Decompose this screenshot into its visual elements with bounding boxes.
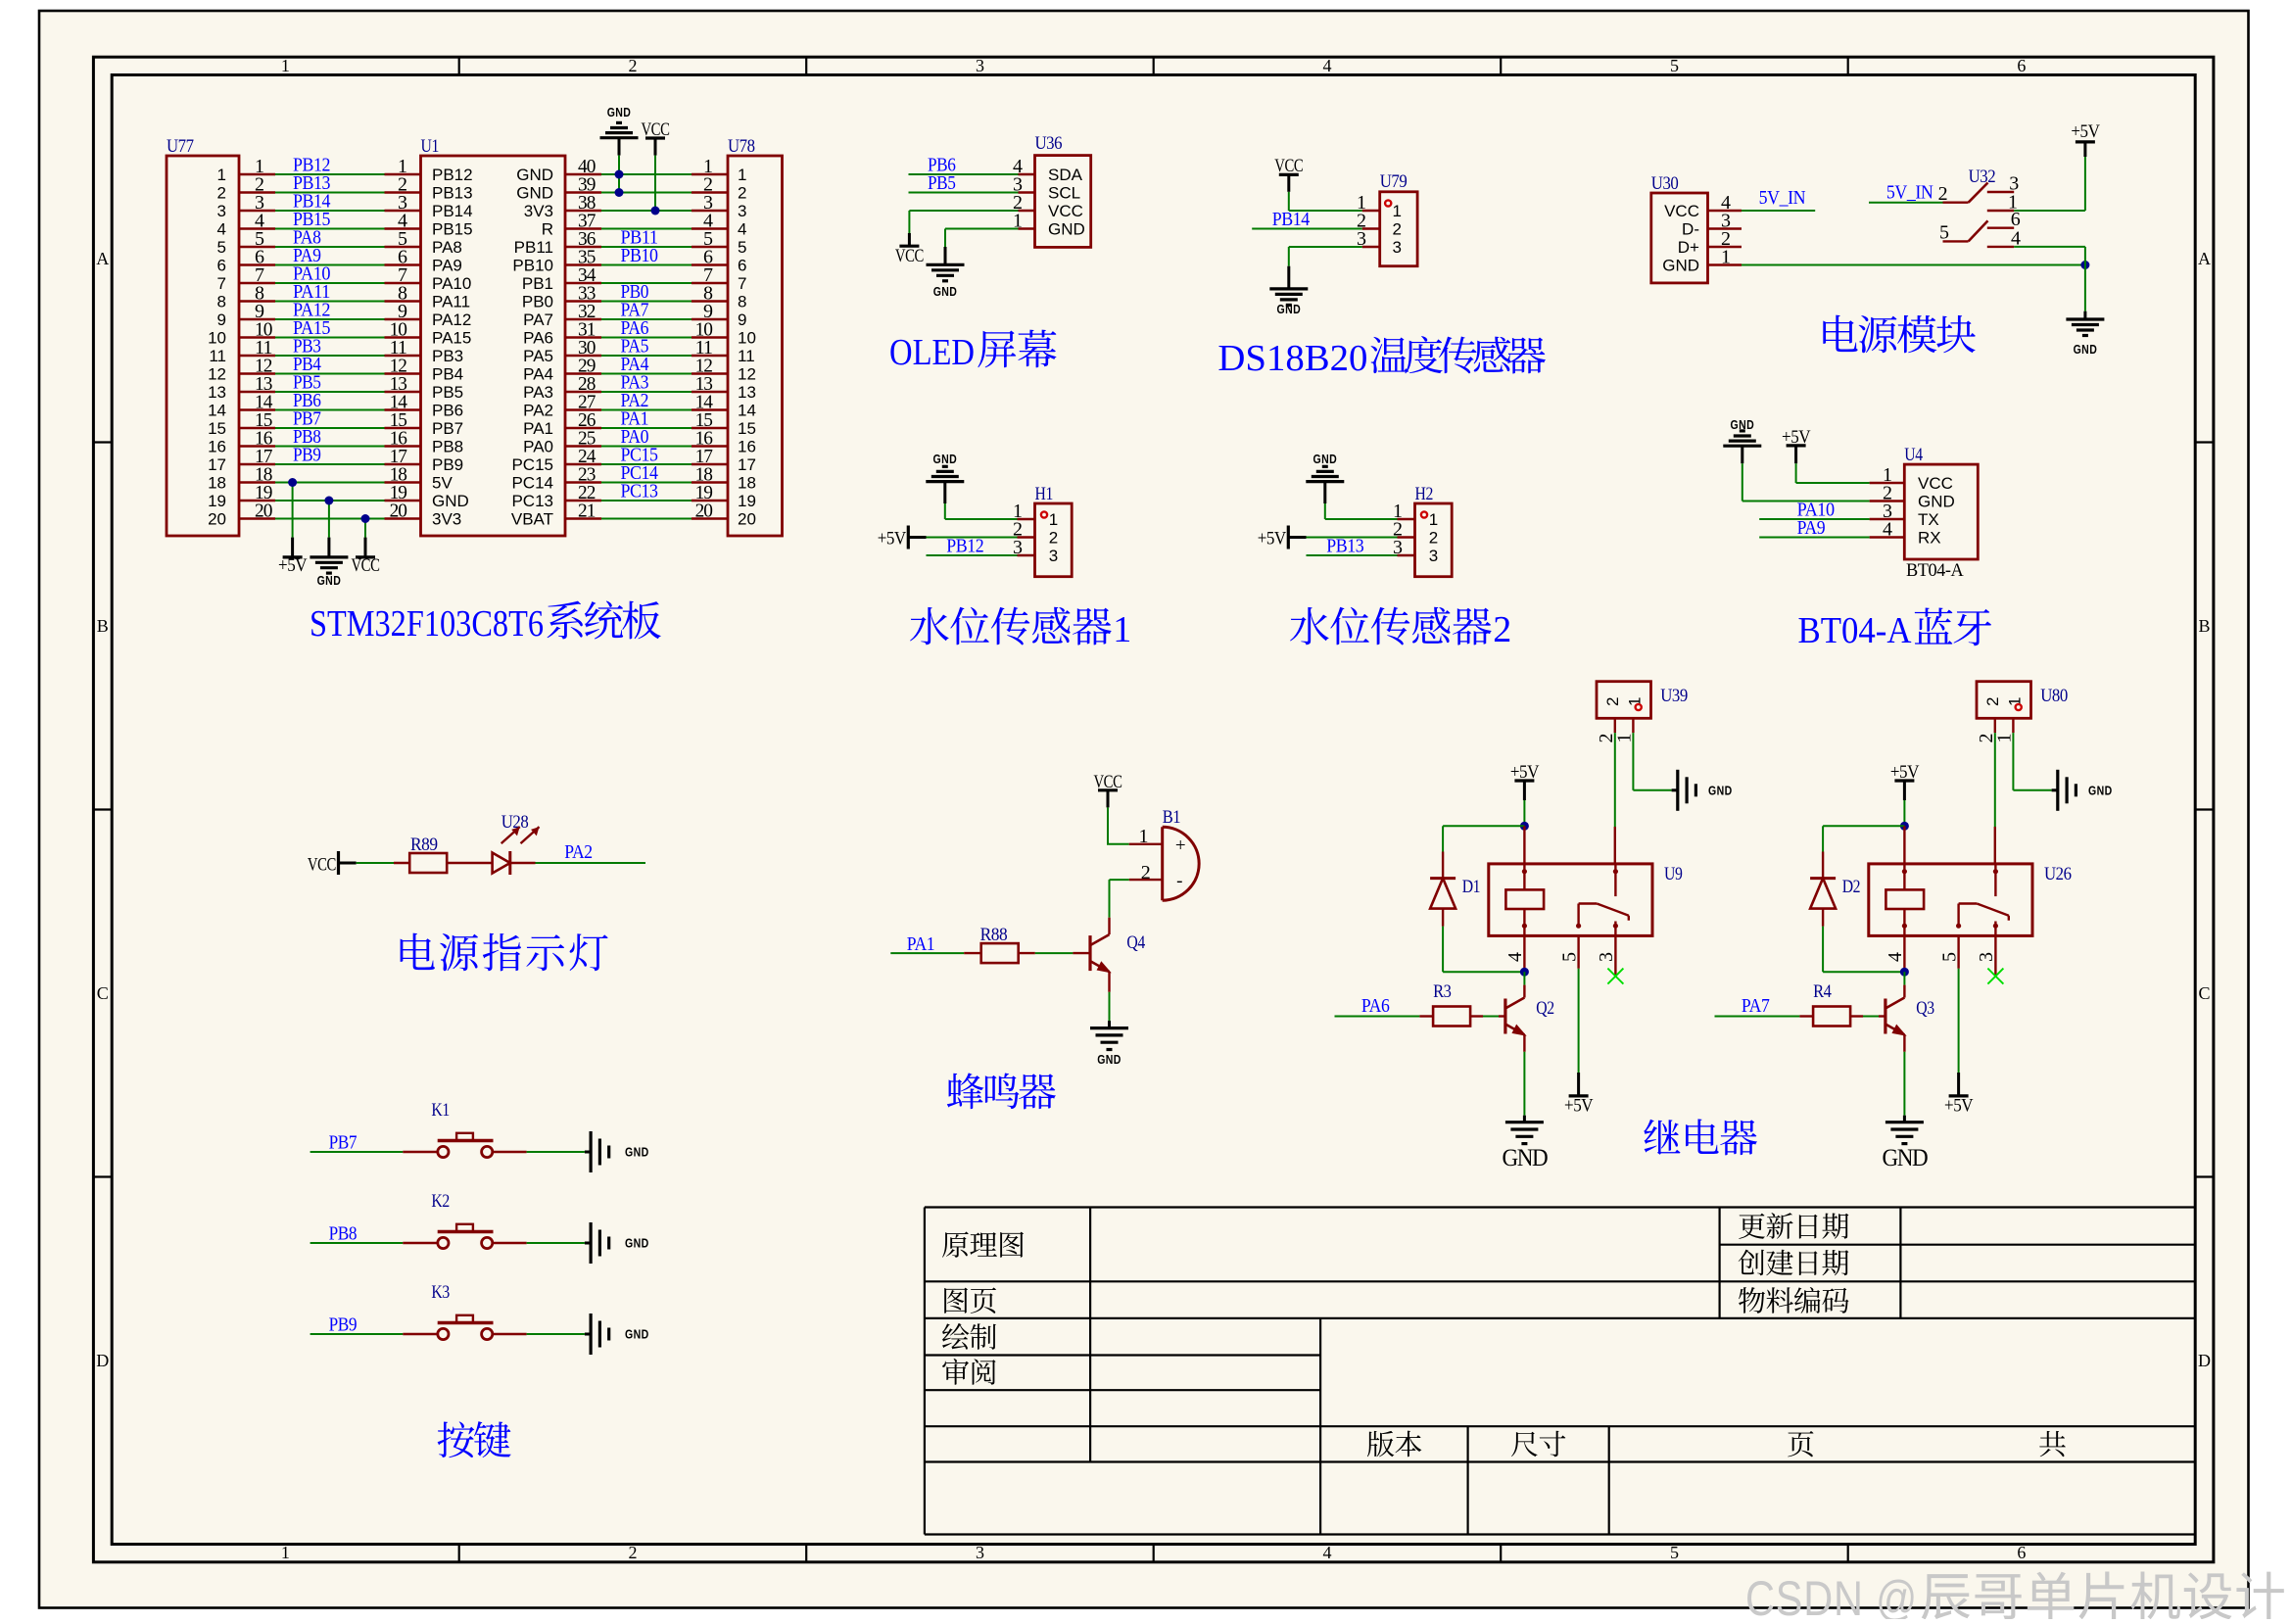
svg-text:2: 2 bbox=[1603, 697, 1622, 706]
svg-text:GND: GND bbox=[1097, 1052, 1122, 1067]
svg-text:PB9: PB9 bbox=[293, 445, 321, 466]
svg-text:PA6: PA6 bbox=[523, 329, 553, 348]
svg-text:15: 15 bbox=[738, 419, 756, 438]
svg-text:BT04-A: BT04-A bbox=[1798, 610, 1913, 651]
svg-text:PB12: PB12 bbox=[432, 166, 473, 184]
svg-text:GND: GND bbox=[1662, 257, 1699, 275]
svg-text:K2: K2 bbox=[431, 1191, 449, 1212]
svg-text:D+: D+ bbox=[1678, 238, 1699, 257]
svg-text:R88: R88 bbox=[980, 925, 1008, 945]
svg-text:D2: D2 bbox=[1842, 877, 1860, 897]
svg-text:GND: GND bbox=[625, 1236, 649, 1251]
svg-text:PB8: PB8 bbox=[432, 438, 463, 456]
svg-text:SCL: SCL bbox=[1048, 184, 1080, 203]
svg-text:19: 19 bbox=[208, 492, 226, 510]
svg-text:PC15: PC15 bbox=[511, 455, 553, 474]
svg-text:PA2: PA2 bbox=[523, 402, 553, 420]
svg-text:3: 3 bbox=[1393, 238, 1402, 257]
svg-text:GND: GND bbox=[607, 105, 632, 119]
svg-text:C: C bbox=[2198, 983, 2210, 1003]
svg-text:GND: GND bbox=[1708, 784, 1733, 798]
svg-text:PA2: PA2 bbox=[564, 841, 593, 863]
svg-text:1: 1 bbox=[281, 1543, 290, 1562]
svg-text:13: 13 bbox=[208, 383, 226, 402]
svg-text:20: 20 bbox=[255, 501, 272, 522]
svg-text:D: D bbox=[96, 1351, 109, 1370]
svg-text:VCC: VCC bbox=[351, 555, 379, 576]
svg-text:21: 21 bbox=[578, 501, 595, 522]
svg-text:3: 3 bbox=[1976, 952, 1997, 962]
svg-text:RX: RX bbox=[1918, 529, 1941, 548]
svg-text:BT04-A: BT04-A bbox=[1906, 560, 1964, 581]
svg-text:C: C bbox=[97, 983, 109, 1003]
svg-text:PA0: PA0 bbox=[523, 438, 553, 456]
svg-text:PB5: PB5 bbox=[432, 383, 463, 402]
svg-text:PB1: PB1 bbox=[522, 274, 553, 293]
svg-text:2: 2 bbox=[1493, 609, 1511, 650]
svg-text:+5V: +5V bbox=[2071, 121, 2100, 142]
svg-text:PB14: PB14 bbox=[432, 202, 473, 220]
svg-text:6: 6 bbox=[2017, 56, 2026, 75]
svg-text:+5V: +5V bbox=[1944, 1096, 1974, 1117]
svg-text:5V_IN: 5V_IN bbox=[1759, 187, 1806, 209]
svg-text:PA1: PA1 bbox=[907, 933, 935, 955]
svg-text:19: 19 bbox=[738, 492, 756, 510]
svg-text:PA9: PA9 bbox=[432, 257, 462, 275]
svg-text:PB13: PB13 bbox=[1326, 536, 1363, 557]
svg-text:2: 2 bbox=[217, 184, 226, 203]
svg-text:GND: GND bbox=[1918, 493, 1955, 511]
svg-text:3: 3 bbox=[976, 1543, 984, 1562]
svg-text:A: A bbox=[96, 249, 109, 268]
svg-text:3: 3 bbox=[738, 202, 746, 220]
svg-text:20: 20 bbox=[390, 501, 407, 522]
svg-text:VCC: VCC bbox=[895, 246, 924, 266]
svg-text:VCC: VCC bbox=[1274, 156, 1303, 176]
svg-text:PB5: PB5 bbox=[928, 172, 956, 194]
svg-text:PC13: PC13 bbox=[621, 481, 658, 502]
svg-text:D: D bbox=[2198, 1351, 2211, 1370]
svg-text:PB12: PB12 bbox=[946, 536, 983, 557]
svg-text:PA7: PA7 bbox=[1742, 995, 1770, 1017]
svg-text:A: A bbox=[2198, 249, 2211, 268]
svg-text:H1: H1 bbox=[1035, 484, 1053, 504]
svg-text:3V3: 3V3 bbox=[432, 510, 461, 529]
svg-text:PB13: PB13 bbox=[432, 184, 473, 203]
svg-text:2: 2 bbox=[1049, 529, 1058, 548]
svg-text:12: 12 bbox=[208, 365, 226, 384]
svg-text:1: 1 bbox=[217, 166, 226, 184]
svg-text:3: 3 bbox=[1596, 952, 1617, 962]
svg-text:15: 15 bbox=[208, 419, 226, 438]
svg-text:4: 4 bbox=[1885, 952, 1906, 962]
svg-text:PA6: PA6 bbox=[1361, 995, 1390, 1017]
svg-text:TX: TX bbox=[1918, 510, 1939, 529]
svg-text:PB9: PB9 bbox=[329, 1314, 358, 1336]
svg-text:PC14: PC14 bbox=[511, 474, 553, 493]
svg-text:U80: U80 bbox=[2040, 686, 2068, 706]
svg-text:U39: U39 bbox=[1660, 686, 1688, 706]
svg-text:11: 11 bbox=[209, 347, 226, 365]
svg-text:U79: U79 bbox=[1380, 171, 1408, 192]
svg-text:4: 4 bbox=[1323, 1543, 1332, 1562]
svg-text:1: 1 bbox=[1614, 735, 1636, 743]
svg-text:PA11: PA11 bbox=[432, 293, 470, 311]
svg-text:PA5: PA5 bbox=[523, 347, 553, 365]
svg-text:9: 9 bbox=[738, 310, 746, 329]
svg-text:PB15: PB15 bbox=[432, 220, 473, 239]
svg-text:VCC: VCC bbox=[1048, 202, 1083, 220]
svg-text:PB10: PB10 bbox=[621, 245, 658, 266]
svg-text:PB7: PB7 bbox=[432, 419, 463, 438]
svg-text:2: 2 bbox=[1429, 529, 1438, 548]
svg-text:9: 9 bbox=[217, 310, 226, 329]
svg-text:PB8: PB8 bbox=[329, 1223, 358, 1245]
svg-text:R3: R3 bbox=[1433, 981, 1451, 1002]
svg-text:PA1: PA1 bbox=[523, 419, 553, 438]
svg-text:U32: U32 bbox=[1969, 167, 1996, 187]
svg-text:PA15: PA15 bbox=[432, 329, 471, 348]
svg-text:U30: U30 bbox=[1651, 173, 1679, 194]
svg-text:PB11: PB11 bbox=[514, 238, 553, 257]
svg-text:6: 6 bbox=[217, 257, 226, 275]
svg-text:5: 5 bbox=[1939, 222, 1949, 244]
svg-text:PA10: PA10 bbox=[432, 274, 471, 293]
svg-text:1: 1 bbox=[281, 56, 290, 75]
svg-text:U36: U36 bbox=[1035, 133, 1063, 154]
svg-text:GND: GND bbox=[625, 1327, 649, 1342]
svg-text:PA8: PA8 bbox=[432, 238, 462, 257]
svg-text:18: 18 bbox=[208, 474, 226, 493]
svg-text:8: 8 bbox=[217, 293, 226, 311]
svg-text:3: 3 bbox=[976, 56, 984, 75]
svg-text:GND: GND bbox=[1277, 302, 1302, 316]
svg-text:GND: GND bbox=[933, 284, 958, 299]
svg-text:K3: K3 bbox=[431, 1282, 449, 1303]
svg-text:4: 4 bbox=[738, 220, 746, 239]
svg-text:B: B bbox=[97, 616, 109, 636]
svg-text:D-: D- bbox=[1682, 220, 1699, 239]
svg-text:3: 3 bbox=[1429, 547, 1438, 565]
svg-text:U4: U4 bbox=[1904, 445, 1923, 465]
svg-text:14: 14 bbox=[738, 402, 756, 420]
svg-text:17: 17 bbox=[208, 455, 226, 474]
svg-text:3V3: 3V3 bbox=[524, 202, 553, 220]
svg-text:PB14: PB14 bbox=[1272, 209, 1310, 230]
svg-text:5: 5 bbox=[1670, 1543, 1679, 1562]
svg-text:VBAT: VBAT bbox=[511, 510, 553, 529]
svg-text:1: 1 bbox=[738, 166, 746, 184]
svg-text:PA3: PA3 bbox=[523, 383, 553, 402]
svg-text:Q3: Q3 bbox=[1916, 998, 1933, 1019]
svg-text:8: 8 bbox=[738, 293, 746, 311]
svg-text:GND: GND bbox=[317, 573, 342, 588]
svg-text:K1: K1 bbox=[431, 1100, 449, 1121]
svg-text:H2: H2 bbox=[1415, 484, 1433, 504]
svg-text:1: 1 bbox=[1721, 247, 1730, 268]
svg-text:U9: U9 bbox=[1664, 864, 1682, 884]
svg-text:B: B bbox=[2198, 616, 2210, 636]
svg-text:20: 20 bbox=[695, 501, 713, 522]
svg-text:STM32F103C8T6: STM32F103C8T6 bbox=[310, 603, 544, 645]
svg-text:GND: GND bbox=[432, 492, 469, 510]
svg-text:U26: U26 bbox=[2044, 864, 2072, 884]
svg-text:GND: GND bbox=[625, 1145, 649, 1160]
svg-text:1: 1 bbox=[1429, 510, 1438, 529]
svg-text:5: 5 bbox=[1939, 952, 1961, 962]
svg-text:VCC: VCC bbox=[1918, 474, 1953, 493]
svg-text:GND: GND bbox=[1048, 220, 1085, 239]
svg-text:GND: GND bbox=[1502, 1145, 1548, 1171]
svg-text:OLED: OLED bbox=[889, 332, 975, 373]
svg-text:GND: GND bbox=[1313, 452, 1338, 466]
svg-text:6: 6 bbox=[738, 257, 746, 275]
svg-text:PB7: PB7 bbox=[329, 1132, 358, 1154]
svg-text:2: 2 bbox=[1983, 697, 2002, 706]
svg-text:6: 6 bbox=[2017, 1543, 2026, 1562]
svg-text:PB0: PB0 bbox=[522, 293, 553, 311]
svg-text:PA7: PA7 bbox=[523, 310, 553, 329]
svg-text:SDA: SDA bbox=[1048, 166, 1083, 184]
svg-text:1: 1 bbox=[1139, 826, 1148, 847]
svg-text:3: 3 bbox=[217, 202, 226, 220]
svg-text:7: 7 bbox=[738, 274, 746, 293]
svg-text:-: - bbox=[1176, 871, 1182, 891]
svg-text:10: 10 bbox=[738, 329, 756, 348]
svg-text:+5V: +5V bbox=[878, 529, 907, 549]
svg-text:16: 16 bbox=[208, 438, 226, 456]
svg-text:18: 18 bbox=[738, 474, 756, 493]
svg-text:GND: GND bbox=[2074, 342, 2098, 357]
svg-text:GND: GND bbox=[1882, 1145, 1928, 1171]
svg-text:14: 14 bbox=[208, 402, 226, 420]
svg-text:U77: U77 bbox=[167, 136, 194, 157]
svg-text:1: 1 bbox=[1049, 510, 1058, 529]
svg-text:4: 4 bbox=[1883, 519, 1892, 541]
svg-text:1: 1 bbox=[1994, 735, 2016, 743]
svg-text:U78: U78 bbox=[728, 136, 755, 157]
svg-text:PB10: PB10 bbox=[512, 257, 553, 275]
svg-text:17: 17 bbox=[738, 455, 756, 474]
svg-text:R: R bbox=[542, 220, 553, 239]
svg-text:5V_IN: 5V_IN bbox=[1886, 182, 1933, 204]
svg-text:D1: D1 bbox=[1462, 877, 1480, 897]
svg-text:R89: R89 bbox=[410, 835, 438, 855]
svg-text:PC13: PC13 bbox=[511, 492, 553, 510]
svg-text:U1: U1 bbox=[421, 136, 439, 157]
svg-text:PA12: PA12 bbox=[432, 310, 471, 329]
svg-text:GND: GND bbox=[933, 452, 958, 466]
svg-text:2: 2 bbox=[629, 56, 638, 75]
svg-text:Q4: Q4 bbox=[1126, 932, 1145, 953]
svg-text:+: + bbox=[1175, 836, 1185, 856]
svg-text:+5V: +5V bbox=[1564, 1096, 1594, 1117]
svg-text:R4: R4 bbox=[1813, 981, 1832, 1002]
svg-text:20: 20 bbox=[738, 510, 756, 529]
svg-text:4: 4 bbox=[1504, 952, 1526, 962]
svg-text:Q2: Q2 bbox=[1536, 998, 1553, 1019]
svg-text:B1: B1 bbox=[1163, 807, 1180, 828]
svg-text:PB3: PB3 bbox=[432, 347, 463, 365]
svg-text:2: 2 bbox=[738, 184, 746, 203]
svg-text:GND: GND bbox=[2088, 784, 2113, 798]
svg-text:2: 2 bbox=[1938, 183, 1947, 205]
svg-text:13: 13 bbox=[738, 383, 756, 402]
svg-text:5: 5 bbox=[738, 238, 746, 257]
svg-text:2: 2 bbox=[629, 1543, 638, 1562]
svg-text:12: 12 bbox=[738, 365, 756, 384]
svg-text:PA9: PA9 bbox=[1797, 517, 1826, 539]
svg-text:5: 5 bbox=[217, 238, 226, 257]
svg-text:5: 5 bbox=[1670, 56, 1679, 75]
svg-text:5V: 5V bbox=[432, 474, 453, 493]
svg-text:VCC: VCC bbox=[308, 855, 336, 876]
svg-text:20: 20 bbox=[208, 510, 226, 529]
svg-text:10: 10 bbox=[208, 329, 226, 348]
svg-text:7: 7 bbox=[217, 274, 226, 293]
svg-text:VCC: VCC bbox=[1664, 202, 1699, 220]
svg-text:GND: GND bbox=[516, 166, 553, 184]
svg-text:PA4: PA4 bbox=[523, 365, 553, 384]
svg-text:2: 2 bbox=[1393, 220, 1402, 239]
svg-text:+5V: +5V bbox=[278, 555, 308, 576]
svg-text:4: 4 bbox=[1323, 56, 1332, 75]
svg-text:PB6: PB6 bbox=[432, 402, 463, 420]
svg-text:CSDN @: CSDN @ bbox=[1745, 1571, 1918, 1619]
svg-text:5: 5 bbox=[1559, 952, 1581, 962]
svg-text:PB4: PB4 bbox=[432, 365, 463, 384]
svg-text:DS18B20: DS18B20 bbox=[1217, 338, 1367, 379]
svg-text:11: 11 bbox=[738, 347, 755, 365]
svg-text:1: 1 bbox=[1113, 609, 1131, 650]
svg-text:GND: GND bbox=[516, 184, 553, 203]
svg-text:1: 1 bbox=[1393, 202, 1402, 220]
svg-text:3: 3 bbox=[1049, 547, 1058, 565]
svg-text:16: 16 bbox=[738, 438, 756, 456]
svg-text:4: 4 bbox=[217, 220, 226, 239]
svg-text:PB9: PB9 bbox=[432, 455, 463, 474]
svg-text:+5V: +5V bbox=[1258, 529, 1287, 549]
